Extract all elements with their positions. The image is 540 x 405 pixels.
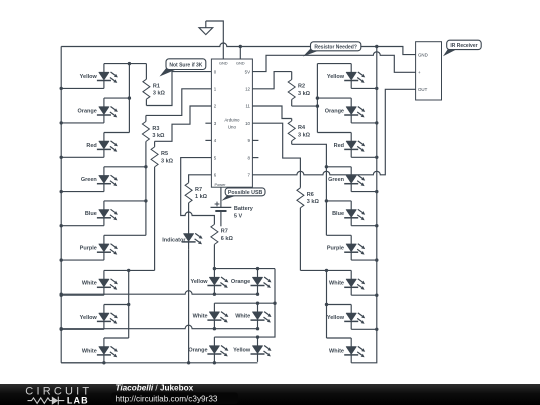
node grid row1 col2 junction: [213, 267, 260, 270]
resistor R4: [288, 119, 295, 145]
svg-text:Power: Power: [215, 182, 227, 187]
svg-text:3 kΩ: 3 kΩ: [307, 199, 320, 205]
svg-text:Orange: Orange: [188, 347, 207, 353]
svg-text:Indicator: Indicator: [162, 237, 186, 243]
LED D14 Blue right column: [344, 201, 365, 226]
node junction on GND rail at second Arduino GND pin: [239, 45, 242, 48]
label White left column: [82, 348, 97, 354]
LED D7 White left column: [97, 270, 118, 295]
label grid row1 Yellow: [190, 279, 208, 285]
svg-text:Yellow: Yellow: [190, 279, 208, 285]
svg-text:Resistor Needed?: Resistor Needed?: [314, 44, 357, 50]
LED D11 Orange right column: [344, 98, 365, 123]
wire Purple right top wire: [326, 234, 351, 236]
Arduino right pin labels 5V,12-7: [245, 69, 251, 177]
wire R4 to right mid bus: [292, 144, 327, 235]
svg-text:Not Sure if 3K: Not Sure if 3K: [169, 62, 202, 68]
svg-text:White: White: [193, 314, 208, 320]
LED D18 White right column: [344, 338, 365, 363]
svg-text:Yellow: Yellow: [80, 315, 98, 321]
node grid row3 col2 junction: [256, 335, 259, 338]
resistor R7 1 kOhm: [185, 183, 192, 225]
svg-text:R2: R2: [298, 84, 305, 90]
Arduino left pin number labels 0-6: [214, 69, 217, 177]
svg-text:3 kΩ: 3 kΩ: [298, 91, 311, 97]
label grid row3 Yellow: [233, 347, 251, 353]
LED D4 Green left column: [97, 167, 118, 192]
annotation callout IR Receiver: [443, 40, 481, 56]
wire left bus Yellow to Red rows: [128, 64, 130, 133]
CircuitLab logo resistor-diode glyph: [28, 397, 65, 405]
wire R1 to Arduino pin 0: [146, 72, 211, 106]
pin 8 stub: [252, 157, 258, 159]
LED D12 Red right column: [344, 133, 365, 158]
label Green right column: [328, 177, 345, 183]
LED indicator: [182, 225, 203, 250]
wire Arduino pin 10 to R6: [252, 123, 300, 188]
wire Blue right top wire: [326, 200, 351, 202]
svg-text:11: 11: [245, 104, 250, 109]
label Orange left column: [78, 108, 97, 114]
LED D5 Blue left column: [97, 201, 118, 226]
label Yellow right column: [327, 74, 345, 80]
node grid row2 link junction: [273, 302, 276, 305]
wire White9 right top wire: [327, 337, 352, 339]
label White right column: [329, 348, 344, 354]
svg-text:Battery: Battery: [234, 206, 254, 212]
wire Arduino pin 11 to R4: [252, 106, 291, 119]
svg-text:5 V: 5 V: [234, 214, 243, 220]
svg-text:LAB: LAB: [67, 396, 89, 405]
wire Red right top wire: [317, 132, 351, 134]
wire Yellow left top to R1: [104, 63, 146, 65]
wire bottom ground rail: [61, 362, 257, 364]
LED grid row3 Yellow: [251, 337, 272, 362]
svg-text:Uno: Uno: [228, 125, 237, 130]
node left rail junction row 3: [60, 156, 63, 159]
svg-text:R3: R3: [152, 126, 159, 132]
node White7 right lower-bus junction: [325, 269, 328, 272]
battery V1 5V: [211, 202, 232, 227]
label Battery 5V: [234, 206, 254, 220]
label grid row1 Orange: [231, 279, 250, 285]
op-amp U1 Arduino Uno body: [211, 59, 252, 187]
label White right column: [329, 281, 344, 287]
pin 3 stub: [205, 122, 211, 124]
node right rail junction row 6: [375, 258, 378, 261]
label Green left column: [81, 177, 98, 183]
Arduino GND pin labels: [219, 61, 245, 66]
wire right lower bus: [326, 270, 328, 338]
Arduino Uno name label: [224, 118, 240, 130]
node grid row3 cathode junction: [213, 361, 216, 364]
node left rail junction row 2: [60, 121, 63, 124]
label grid row2 White: [235, 314, 250, 320]
op-amp U2 IR receiver body: [416, 42, 442, 100]
wire Blue left cathode to left rail: [61, 225, 104, 227]
svg-text:http://circuitlab.com/c3y9r33: http://circuitlab.com/c3y9r33: [116, 394, 218, 403]
svg-text:Blue: Blue: [332, 211, 344, 217]
svg-text:+: +: [418, 70, 421, 75]
wire Green left top wire: [104, 166, 146, 168]
wire Purple left cathode to left rail: [61, 259, 104, 261]
ground: [199, 21, 213, 35]
svg-text:Red: Red: [86, 143, 96, 149]
svg-text:IR Receiver: IR Receiver: [450, 43, 477, 49]
wire Arduino pin 7 to IR receiver OUT: [252, 89, 415, 175]
annotation callout Not Sure if 3K: [160, 59, 206, 77]
wire Red left cathode to left rail: [61, 156, 104, 158]
resistor R1: [143, 64, 150, 106]
LED grid row2 White: [207, 303, 228, 328]
resistor R7 6 kOhm: [211, 224, 218, 268]
label Yellow left column: [80, 315, 98, 321]
LED D6 Purple left column: [97, 235, 118, 260]
wire Blue left top wire: [104, 200, 146, 202]
LED D13 Green right column: [344, 167, 365, 192]
node R3 bus Blue junction: [144, 199, 147, 202]
wire Orange right top wire: [317, 97, 351, 99]
svg-text:R4: R4: [298, 125, 306, 131]
resistor R6: [297, 188, 304, 271]
resistor R2: [288, 72, 295, 107]
footer bar: [0, 384, 540, 405]
svg-text:White: White: [329, 281, 344, 287]
label Red left column: [86, 143, 96, 149]
svg-text:Orange: Orange: [78, 108, 97, 114]
svg-text:Arduino: Arduino: [224, 118, 240, 123]
label R1 3 kOhm: [153, 83, 166, 96]
LED D8 Yellow left column: [97, 305, 118, 330]
wire right ground rail: [351, 47, 377, 363]
LED D16 White right column: [344, 270, 365, 295]
svg-text:Green: Green: [328, 177, 345, 183]
wire Arduino pin 6 to R7 1k: [189, 175, 212, 183]
wire Purple left top wire: [104, 234, 146, 236]
wire Yellow right top wire: [317, 63, 351, 65]
LED D17 Yellow right column: [344, 305, 365, 330]
node left rail junction row 5: [60, 224, 63, 227]
label Yellow left column: [80, 74, 98, 80]
svg-text:12: 12: [245, 87, 250, 92]
svg-text:1 kΩ: 1 kΩ: [195, 194, 208, 200]
node Yellow8 left lower-bus junction: [127, 303, 130, 306]
resistor R5: [151, 141, 158, 270]
node right rail junction row 8: [375, 328, 378, 331]
wire Blue right cathode to right rail: [351, 225, 377, 227]
svg-text:6 kΩ: 6 kΩ: [221, 236, 234, 242]
wire Orange right cathode to right rail: [351, 122, 377, 124]
label Red right column: [334, 143, 344, 149]
wire White left cathode to left rail: [61, 362, 104, 364]
node left rail junction row 6: [60, 258, 63, 261]
label Indicator: [162, 237, 186, 243]
wire top GND rail: [61, 43, 415, 55]
wire left ground rail: [60, 47, 62, 363]
wire White9 left top wire: [104, 337, 129, 339]
svg-text:White: White: [82, 348, 97, 354]
svg-text:OUT: OUT: [418, 87, 428, 92]
wire Yellow left cathode to left rail: [61, 328, 104, 330]
annotation callout Resistor Needed?: [303, 42, 361, 57]
wire grid row1 cathodes to left rail: [61, 291, 257, 294]
svg-text:R7: R7: [195, 187, 202, 193]
svg-text:GND: GND: [219, 61, 228, 66]
svg-text:Yellow: Yellow: [327, 74, 345, 80]
node grid row1 cathode junctions: [60, 293, 260, 296]
wire grid row2 top: [214, 302, 275, 304]
node Orange right bus junction: [316, 96, 319, 99]
label Yellow right column: [327, 315, 345, 321]
node Orange left bus junction: [128, 96, 131, 99]
LED D9 White left column: [97, 338, 118, 363]
wire GND rail to Arduino GND pin 2: [239, 47, 241, 60]
label R4 3 kOhm: [298, 125, 311, 138]
node left rail junction row 4: [60, 190, 63, 193]
svg-text:Red: Red: [334, 143, 344, 149]
node R2 bus junction: [316, 104, 319, 107]
node right mid bus Blue junction: [325, 199, 328, 202]
wire Yellow8 left top wire: [104, 304, 129, 306]
label R2 3 kOhm: [298, 84, 311, 97]
LED grid row1 Yellow: [207, 269, 228, 294]
node left rail junction row 7: [60, 294, 63, 297]
svg-text:Yellow: Yellow: [233, 347, 251, 353]
pin 9 stub: [252, 139, 258, 141]
node left rail junction row 1: [60, 87, 63, 90]
svg-text:Purple: Purple: [80, 246, 97, 252]
LED grid row1 Orange: [251, 269, 272, 294]
node White7 left lower-bus junction: [127, 269, 130, 272]
wire Green right top wire: [326, 166, 351, 168]
wire Yellow8 right top wire: [327, 304, 352, 306]
wire R2 to right bus: [292, 105, 318, 107]
wire Arduino pin 2 to R5: [155, 106, 212, 141]
wire Arduino pin 5 to R7 6k: [181, 158, 215, 225]
label grid row2 White: [193, 314, 208, 320]
node indicator bottom rail junction: [187, 361, 190, 364]
wire Arduino pin 1 to R3: [146, 89, 212, 116]
label Purple right column: [327, 246, 344, 252]
label Orange right column: [325, 108, 344, 114]
label Blue right column: [332, 211, 344, 217]
LED D10 Yellow right column: [344, 64, 365, 89]
LED grid row2 White: [251, 303, 272, 328]
wire Red left top wire: [104, 132, 129, 134]
node Yellow-Orange left bus junction: [128, 62, 131, 65]
wire White7 right top wire: [300, 269, 351, 271]
wire left lower bus: [128, 270, 130, 338]
svg-text:3 kΩ: 3 kΩ: [161, 158, 174, 164]
svg-text:Yellow: Yellow: [327, 315, 345, 321]
svg-text:5V: 5V: [245, 69, 250, 74]
wire Green left cathode to left rail: [61, 191, 104, 193]
wire Yellow right cathode to right rail: [351, 328, 377, 330]
wire indicator cathode to bottom rail: [188, 250, 190, 363]
svg-text:3 kΩ: 3 kΩ: [152, 133, 165, 139]
svg-text:R6: R6: [307, 192, 314, 198]
svg-text:GND: GND: [418, 52, 428, 57]
svg-text:Blue: Blue: [85, 211, 97, 217]
wire White right cathode to right rail: [351, 294, 377, 296]
node left rail bottom junction: [102, 361, 105, 364]
wire Yellow right cathode to right rail: [351, 87, 377, 89]
node right rail junction row 1: [375, 87, 378, 90]
node right rail junction row 7: [375, 294, 378, 297]
LED D1 Yellow left column: [97, 64, 118, 89]
svg-text:3 kΩ: 3 kΩ: [298, 132, 311, 138]
wire grid link row1-row3: [214, 269, 275, 338]
wire right upper bus: [316, 64, 318, 133]
svg-text:Yellow: Yellow: [80, 74, 98, 80]
wire 5V rail from Arduino 5V to IR receiver +: [252, 52, 415, 73]
label R3 3 kOhm: [152, 126, 165, 139]
label grid row3 Orange: [188, 347, 207, 353]
IR receiver pin labels: [418, 52, 428, 92]
wire Red right cathode to right rail: [351, 156, 377, 158]
svg-text:10: 10: [245, 121, 250, 126]
svg-text:R7: R7: [221, 229, 228, 235]
label White left column: [82, 281, 97, 287]
LED grid row3 Orange: [207, 337, 228, 362]
node grid row2 cathode junctions: [60, 327, 260, 330]
wire Arduino Power pin to battery: [220, 187, 222, 207]
LED D15 Purple right column: [344, 235, 365, 260]
svg-text:Purple: Purple: [327, 246, 344, 252]
svg-text:R1: R1: [153, 83, 160, 89]
wire Purple right cathode to right rail: [351, 259, 377, 261]
svg-text:Possible USB: Possible USB: [228, 190, 263, 196]
label R7 6 kOhm: [221, 229, 234, 242]
node right rail junction row 3: [375, 156, 378, 159]
svg-text:Orange: Orange: [325, 108, 344, 114]
svg-text:White: White: [235, 314, 250, 320]
node right rail junction row 5: [375, 224, 378, 227]
svg-text:Green: Green: [81, 177, 98, 183]
Arduino Power pin label: [215, 182, 227, 187]
node right rail junction row 4: [375, 190, 378, 193]
wire White left cathode to left rail: [61, 294, 104, 296]
LED D2 Orange left column: [97, 98, 118, 123]
svg-text:GND: GND: [236, 61, 245, 66]
wire Orange left top wire: [104, 97, 129, 99]
wire Green right cathode to right rail: [351, 191, 377, 193]
node right rail junction row 2: [375, 121, 378, 124]
label Blue left column: [85, 211, 97, 217]
svg-text:White: White: [329, 348, 344, 354]
label R5 3 kOhm: [161, 151, 174, 164]
svg-text:R5: R5: [161, 151, 168, 157]
node right mid bus Green junction: [325, 165, 328, 168]
resistor R3: [142, 115, 149, 235]
svg-text:White: White: [82, 281, 97, 287]
node Yellow8 right lower-bus junction: [325, 303, 328, 306]
wire White7 left top wire: [104, 269, 155, 271]
wire grid row2 cathodes to left rail: [61, 325, 257, 329]
node left rail junction row 8: [60, 328, 63, 331]
label Purple left column: [80, 246, 97, 252]
svg-text:3 kΩ: 3 kΩ: [153, 91, 166, 97]
wire Arduino pin 12 to R2: [252, 72, 291, 89]
label R6 3 kOhm: [307, 192, 320, 205]
svg-text:Orange: Orange: [231, 279, 250, 285]
node grid row2 col2 junction: [256, 302, 259, 305]
node R3 bus Green junction: [144, 165, 147, 168]
label R7 1 kOhm: [195, 187, 208, 200]
footer url pill: [111, 393, 238, 405]
LED D3 Red left column: [97, 133, 118, 158]
wire ground to Arduino GND pin 1: [206, 21, 224, 59]
wire Orange left cathode to left rail: [61, 122, 104, 124]
svg-text:Tiacobelli / Jukebox: Tiacobelli / Jukebox: [116, 383, 194, 392]
node junction GND rail to right rail: [375, 45, 378, 48]
wire Yellow left cathode to left rail: [61, 87, 104, 89]
pin 4 stub: [205, 139, 211, 141]
annotation callout Possible USB: [222, 188, 266, 201]
wire R7 to grid row1 top: [214, 268, 275, 270]
